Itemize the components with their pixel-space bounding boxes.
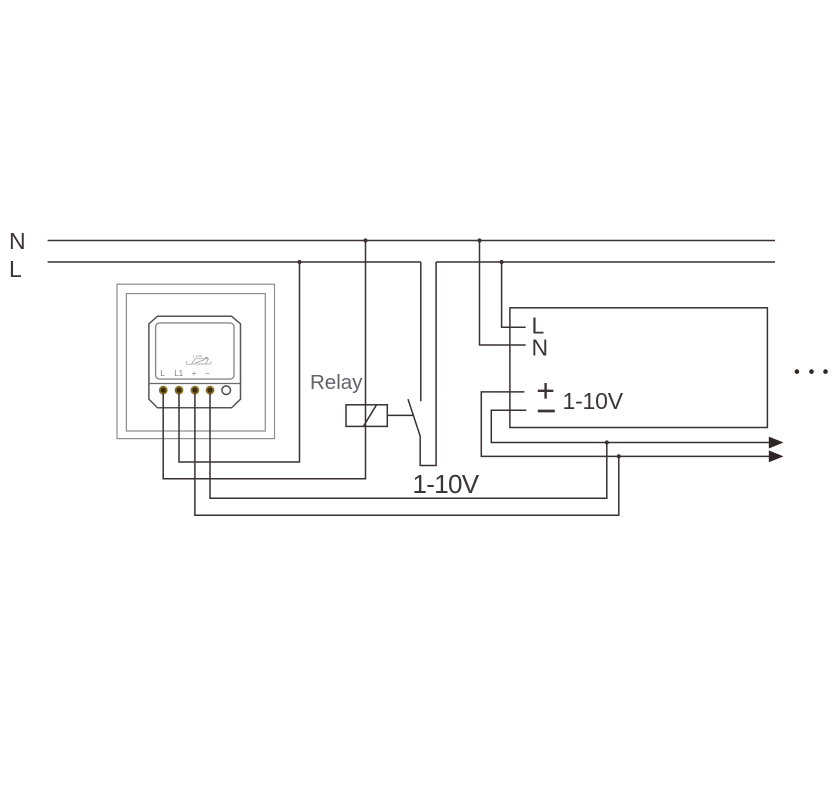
wire L line to driver L terminal bbox=[502, 262, 526, 327]
wire N line to driver N terminal bbox=[480, 241, 526, 346]
outer mounting frame bbox=[117, 284, 275, 438]
wire relay to switch actuator link bbox=[387, 414, 413, 416]
svg-text:1-10V: 1-10V bbox=[413, 469, 480, 499]
module button bbox=[222, 386, 231, 395]
terminal plus bbox=[191, 387, 198, 394]
node N-driver junction bbox=[477, 238, 481, 242]
switch fixed contact wire from L line bbox=[420, 262, 422, 401]
svg-text:N: N bbox=[532, 335, 549, 361]
wire terminal L to relay coil to N line bbox=[163, 241, 365, 479]
relay coil diagonal bbox=[364, 405, 377, 426]
dimmer module body octagon bbox=[149, 316, 241, 408]
ellipsis continuation dots bbox=[795, 369, 800, 374]
node minus line to module junction bbox=[605, 440, 609, 444]
arrowhead minus output bbox=[769, 437, 784, 449]
module display window bbox=[156, 323, 234, 379]
terminal minus bbox=[207, 387, 214, 394]
arrowhead plus output bbox=[769, 450, 784, 462]
module divider line bbox=[149, 383, 241, 385]
node N-relay junction bbox=[363, 238, 367, 242]
driver label plus bbox=[538, 383, 554, 399]
node L-L1 junction bbox=[297, 260, 301, 264]
svg-text:N: N bbox=[9, 228, 26, 254]
wire terminal L1 to L line bbox=[179, 262, 300, 462]
wire driver minus output to arrow bbox=[491, 410, 769, 442]
wire driver plus output to arrow bbox=[481, 392, 769, 457]
driver box bbox=[510, 308, 768, 428]
switch blade and return to L line bbox=[408, 262, 436, 466]
wire N line bbox=[48, 240, 775, 242]
svg-text:L1: L1 bbox=[174, 369, 183, 378]
svg-text:L: L bbox=[160, 369, 165, 378]
svg-text:L: L bbox=[9, 256, 22, 282]
wire L line left segment bbox=[48, 261, 421, 263]
driver label minus bbox=[538, 410, 555, 413]
inner mounting frame bbox=[126, 294, 265, 431]
node L-driver junction bbox=[500, 260, 504, 264]
module pictogram 1-10V bbox=[186, 354, 211, 364]
svg-text:−: − bbox=[205, 369, 210, 378]
svg-text:1-10V: 1-10V bbox=[563, 388, 624, 414]
terminal L1 bbox=[176, 387, 183, 394]
terminal L bbox=[160, 387, 167, 394]
relay coil K1 bbox=[346, 405, 387, 427]
wire terminal minus to driver minus output bbox=[210, 394, 607, 499]
svg-text:+: + bbox=[192, 369, 197, 378]
wire terminal plus to driver plus output bbox=[195, 394, 619, 516]
svg-text:1-10V: 1-10V bbox=[193, 354, 203, 358]
wire L line right segment bbox=[436, 261, 775, 263]
node plus line to module junction bbox=[617, 454, 621, 458]
svg-text:Relay: Relay bbox=[310, 371, 363, 394]
